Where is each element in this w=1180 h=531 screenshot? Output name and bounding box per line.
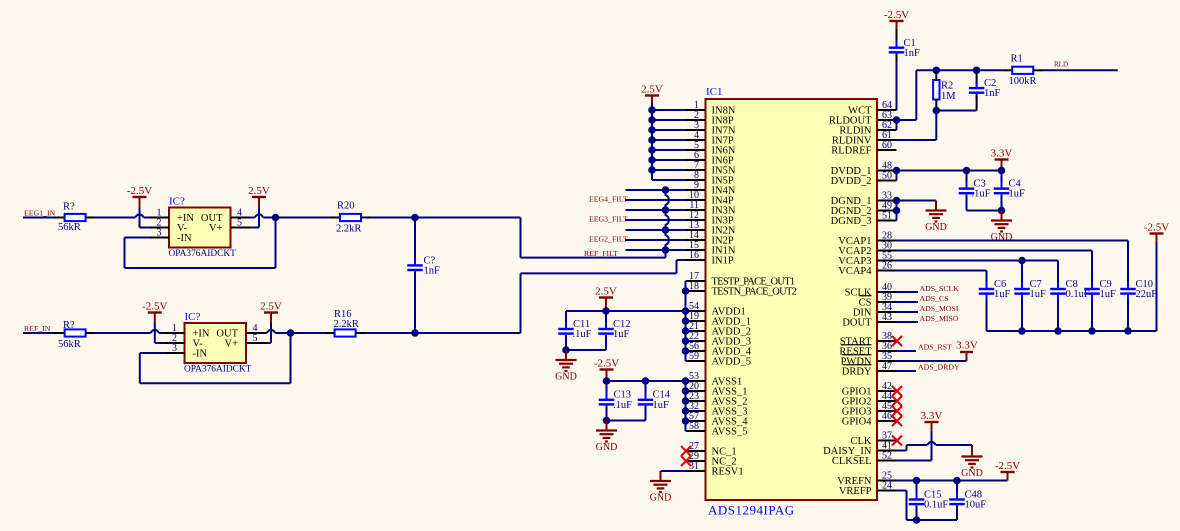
- svg-text:58: 58: [689, 421, 699, 432]
- svg-text:1nF: 1nF: [984, 88, 1001, 99]
- svg-text:1uF: 1uF: [613, 329, 630, 340]
- svg-text:-2.5V: -2.5V: [594, 358, 619, 370]
- svg-text:DOUT: DOUT: [842, 318, 872, 329]
- svg-text:DGND_3: DGND_3: [831, 216, 872, 227]
- svg-text:IC?: IC?: [169, 196, 185, 208]
- svg-text:2.5V: 2.5V: [595, 286, 617, 298]
- svg-text:-IN: -IN: [177, 233, 192, 244]
- svg-text:59: 59: [689, 351, 699, 362]
- svg-text:RLD: RLD: [1054, 61, 1068, 69]
- svg-text:24: 24: [882, 481, 892, 492]
- svg-text:R20: R20: [337, 201, 355, 212]
- svg-text:100kR: 100kR: [1009, 76, 1037, 87]
- svg-text:51: 51: [882, 211, 892, 222]
- svg-text:AVSS_5: AVSS_5: [712, 427, 748, 438]
- svg-text:R2: R2: [941, 81, 953, 92]
- svg-text:REF_IN: REF_IN: [24, 324, 51, 333]
- svg-text:43: 43: [882, 312, 892, 323]
- svg-text:EEG4_FILT: EEG4_FILT: [589, 195, 628, 204]
- svg-text:1nF: 1nF: [904, 48, 921, 59]
- svg-text:-2.5V: -2.5V: [1144, 222, 1169, 234]
- svg-text:R?: R?: [63, 202, 75, 213]
- svg-text:GND: GND: [596, 442, 618, 453]
- svg-text:V+: V+: [209, 223, 223, 234]
- svg-text:46: 46: [882, 411, 892, 422]
- svg-text:R?: R?: [63, 320, 75, 331]
- svg-text:2.5V: 2.5V: [260, 301, 282, 313]
- svg-text:GPIO4: GPIO4: [842, 417, 873, 428]
- svg-text:-2.5V: -2.5V: [884, 9, 909, 21]
- svg-text:GND: GND: [961, 468, 983, 479]
- svg-text:ADS_CS: ADS_CS: [920, 294, 949, 303]
- svg-text:GND: GND: [925, 222, 947, 233]
- svg-text:RLDREF: RLDREF: [831, 146, 871, 157]
- svg-text:GND: GND: [555, 372, 577, 383]
- svg-text:IN1P: IN1P: [712, 256, 734, 267]
- svg-text:.1uF: .1uF: [613, 400, 632, 411]
- svg-text:AVDD_5: AVDD_5: [712, 357, 751, 368]
- svg-text:18: 18: [689, 281, 699, 292]
- svg-text:EEG2_FILT: EEG2_FILT: [589, 235, 628, 244]
- svg-text:3.3V: 3.3V: [956, 340, 978, 352]
- svg-text:ADS_MISO: ADS_MISO: [920, 314, 959, 323]
- svg-text:26: 26: [882, 261, 892, 272]
- svg-text:VREFP: VREFP: [839, 486, 872, 497]
- svg-text:GND: GND: [650, 493, 672, 504]
- svg-text:22uF: 22uF: [1136, 289, 1158, 300]
- svg-text:R1: R1: [1011, 54, 1023, 65]
- svg-text:IC1: IC1: [706, 86, 723, 98]
- svg-text:50: 50: [882, 171, 892, 182]
- svg-text:1uF: 1uF: [1030, 289, 1047, 300]
- svg-text:DVDD_2: DVDD_2: [831, 176, 872, 187]
- svg-text:-2.5V: -2.5V: [995, 460, 1020, 472]
- svg-text:0.1uF: 0.1uF: [924, 500, 948, 511]
- svg-text:1uF: 1uF: [1009, 189, 1026, 200]
- svg-text:2.5V: 2.5V: [641, 84, 663, 96]
- svg-text:TESTN_PACE_OUT2: TESTN_PACE_OUT2: [712, 287, 797, 298]
- svg-text:OPA376AIDCKT: OPA376AIDCKT: [169, 249, 237, 259]
- svg-text:1nF: 1nF: [424, 266, 441, 277]
- svg-text:IC?: IC?: [185, 311, 201, 323]
- svg-text:RESV1: RESV1: [712, 467, 744, 478]
- svg-text:1uF: 1uF: [1100, 289, 1117, 300]
- svg-text:EEG1_IN: EEG1_IN: [24, 209, 56, 218]
- svg-text:VCAP4: VCAP4: [838, 266, 872, 277]
- svg-text:ADS1294IPAG: ADS1294IPAG: [708, 503, 795, 518]
- svg-text:DRDY: DRDY: [842, 367, 872, 378]
- svg-text:OPA376AIDCKT: OPA376AIDCKT: [184, 365, 252, 375]
- svg-text:EEG3_FILT: EEG3_FILT: [589, 215, 628, 224]
- svg-text:2.2kR: 2.2kR: [336, 224, 361, 235]
- svg-text:-IN: -IN: [193, 349, 208, 360]
- svg-text:52: 52: [882, 451, 892, 462]
- svg-text:3.3V: 3.3V: [921, 410, 943, 422]
- svg-text:ADS_RST: ADS_RST: [918, 343, 952, 352]
- svg-text:1uF: 1uF: [653, 400, 670, 411]
- svg-text:ADS_MOSI: ADS_MOSI: [920, 304, 959, 313]
- svg-text:2.2kR: 2.2kR: [334, 319, 359, 330]
- svg-text:2.5V: 2.5V: [248, 185, 270, 197]
- svg-text:REF_FILT: REF_FILT: [584, 249, 618, 258]
- svg-text:31: 31: [689, 461, 699, 472]
- svg-text:56kR: 56kR: [58, 222, 81, 233]
- svg-text:ADS_DRDY: ADS_DRDY: [918, 363, 960, 372]
- svg-text:1uF: 1uF: [994, 289, 1011, 300]
- svg-text:.1uF: .1uF: [972, 189, 991, 200]
- svg-text:56kR: 56kR: [58, 339, 81, 350]
- svg-text:16: 16: [689, 250, 699, 261]
- svg-text:10uF: 10uF: [965, 500, 987, 511]
- svg-text:3.3V: 3.3V: [991, 148, 1013, 160]
- svg-text:1M: 1M: [941, 91, 956, 102]
- svg-text:-2.5V: -2.5V: [127, 185, 152, 197]
- svg-text:47: 47: [882, 361, 892, 372]
- svg-text:V+: V+: [224, 339, 238, 350]
- svg-text:.1uF: .1uF: [573, 329, 592, 340]
- svg-text:CLKSEL: CLKSEL: [832, 456, 872, 467]
- svg-text:-2.5V: -2.5V: [142, 301, 167, 313]
- svg-text:ADS_SCLK: ADS_SCLK: [920, 284, 960, 293]
- svg-text:60: 60: [882, 140, 892, 151]
